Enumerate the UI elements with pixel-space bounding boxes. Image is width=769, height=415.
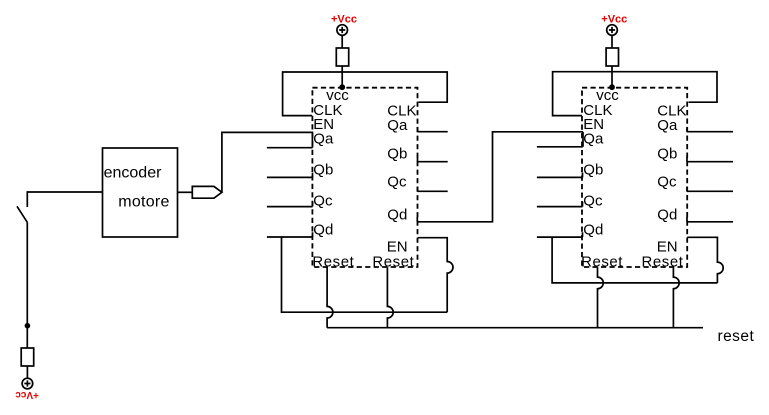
svg-text:Qa: Qa bbox=[387, 117, 408, 134]
svg-text:Qb: Qb bbox=[313, 162, 333, 179]
svg-text:Qc: Qc bbox=[657, 173, 677, 190]
svg-text:+Vcc: +Vcc bbox=[601, 14, 627, 26]
svg-text:encoder: encoder bbox=[104, 165, 162, 182]
svg-text:Qb: Qb bbox=[387, 145, 407, 162]
svg-text:Qa: Qa bbox=[583, 130, 604, 147]
svg-text:+Vcc: +Vcc bbox=[15, 389, 39, 400]
svg-text:Reset: Reset bbox=[581, 253, 623, 270]
svg-text:Qc: Qc bbox=[583, 193, 603, 210]
svg-text:Qd: Qd bbox=[583, 221, 603, 238]
svg-text:motore: motore bbox=[118, 194, 169, 211]
svg-text:Qb: Qb bbox=[583, 162, 603, 179]
svg-text:Qb: Qb bbox=[657, 145, 677, 162]
svg-text:Qd: Qd bbox=[313, 221, 333, 238]
svg-text:Qc: Qc bbox=[313, 193, 333, 210]
svg-text:vcc: vcc bbox=[596, 87, 619, 104]
svg-text:Reset: Reset bbox=[312, 253, 354, 270]
svg-text:Reset: Reset bbox=[642, 253, 684, 270]
svg-text:Qd: Qd bbox=[387, 206, 407, 223]
svg-text:vcc: vcc bbox=[326, 87, 349, 104]
svg-text:+Vcc: +Vcc bbox=[331, 14, 357, 26]
svg-text:Qc: Qc bbox=[387, 173, 407, 190]
svg-text:Qa: Qa bbox=[313, 130, 334, 147]
svg-text:reset: reset bbox=[718, 328, 755, 345]
svg-text:Qd: Qd bbox=[657, 206, 677, 223]
svg-text:Reset: Reset bbox=[372, 253, 414, 270]
svg-text:Qa: Qa bbox=[657, 117, 678, 134]
